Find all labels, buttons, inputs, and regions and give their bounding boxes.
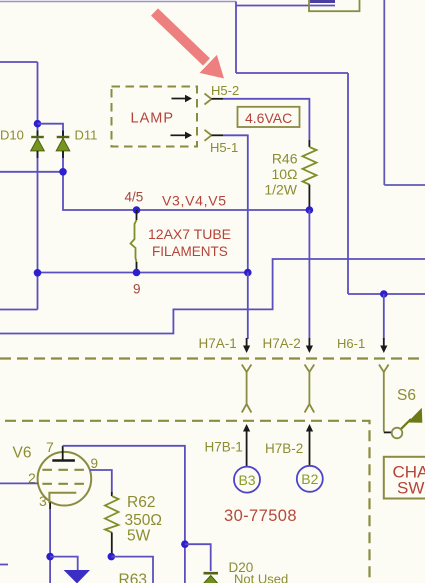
wire filament lower: [38, 272, 248, 274]
wire stub inside connector box: [310, 0, 335, 3]
wire left stub: [0, 564, 8, 566]
arrow H7A-1 down: [243, 338, 250, 353]
svg-text:3: 3: [39, 493, 47, 509]
wire H5-2 upper run: [236, 72, 348, 74]
arrow H7B-2 up: [306, 424, 313, 466]
wire R62 to R63: [111, 557, 153, 583]
diode D11: [56, 131, 70, 159]
dashed boundary line 1: [0, 357, 425, 359]
svg-text:7: 7: [46, 439, 54, 455]
wire H6-1 vertical: [383, 294, 385, 339]
svg-text:12AX7 TUBE: 12AX7 TUBE: [148, 226, 231, 242]
wire H5-2 to R46: [223, 99, 309, 140]
lamp dashed box: [112, 87, 198, 147]
wire to D20: [185, 544, 211, 571]
node junction filament top: [133, 206, 141, 214]
terminal B2: [297, 466, 323, 492]
svg-text:V6: V6: [13, 445, 32, 462]
connector H7A-2 mating: [305, 365, 315, 413]
wire top left horizontal: [0, 61, 38, 63]
resistor filament squiggle: [131, 210, 137, 273]
svg-text:FILAMENTS: FILAMENTS: [152, 244, 228, 259]
wire pin 9: [90, 470, 112, 492]
svg-text:H6-1: H6-1: [337, 336, 365, 351]
arrow lamp pin lower: [171, 132, 193, 139]
node junction R46 bottom: [306, 206, 314, 214]
svg-text:R63: R63: [119, 572, 147, 583]
wire pin 7 plate run: [63, 446, 185, 583]
callout arrow pink: [155, 12, 225, 79]
connector box top right (cut off): [309, 0, 360, 11]
svg-text:H5-1: H5-1: [210, 140, 238, 155]
tube V6: [38, 446, 92, 506]
wire H5-2 black stub: [212, 98, 224, 100]
node junction pin 3: [46, 553, 54, 561]
wire top edge horizontal: [0, 1, 236, 3]
wire to right edge at 294: [348, 293, 425, 295]
wire tall vertical A: [383, 0, 385, 185]
svg-text:4.6VAC: 4.6VAC: [245, 110, 292, 126]
node junction H7A-1: [244, 269, 252, 277]
wire H5-1 black stub: [212, 134, 224, 136]
wire H7A-1 vertical: [247, 273, 249, 340]
wire mid left horizontal: [0, 171, 63, 173]
node junction filament lower mid: [133, 269, 141, 277]
connector chevron H5-2: [205, 94, 212, 105]
node junction D10/D11 top: [34, 120, 42, 128]
svg-text:R46: R46: [272, 151, 298, 167]
wire H7A-2 vertical: [308, 210, 310, 339]
wire vertical into H5-2 net: [235, 2, 237, 74]
wire pin 2: [0, 482, 38, 484]
svg-text:H5-2: H5-2: [211, 83, 239, 98]
svg-text:5W: 5W: [127, 528, 151, 545]
resistor R62: [105, 492, 119, 557]
svg-text:B2: B2: [301, 471, 318, 487]
svg-text:R62: R62: [127, 494, 155, 511]
svg-text:D11: D11: [75, 128, 98, 143]
connector H6-1 mating: [379, 365, 389, 432]
terminal B3: [234, 467, 260, 493]
svg-text:30-77508: 30-77508: [224, 507, 297, 525]
svg-text:H7B-2: H7B-2: [265, 441, 303, 456]
svg-text:B3: B3: [238, 472, 255, 488]
svg-text:9: 9: [133, 282, 141, 297]
wire H5-1 to H7A-1: [223, 135, 248, 272]
svg-text:S6: S6: [397, 387, 416, 404]
connector chevron H5-1: [205, 130, 212, 141]
arrow H7B-1 up: [243, 424, 250, 467]
svg-text:V3,V4,V5: V3,V4,V5: [162, 193, 227, 209]
svg-text:D10: D10: [0, 128, 24, 143]
svg-text:H7B-1: H7B-1: [205, 440, 243, 455]
arrow H6-1 down: [380, 338, 387, 353]
wire to top connector box: [236, 5, 335, 7]
node junction R62 bottom: [108, 553, 116, 561]
svg-text:10Ω: 10Ω: [271, 166, 297, 182]
svg-text:H7A-2: H7A-2: [263, 336, 301, 351]
node junction filament lower left: [34, 269, 42, 277]
svg-text:LAMP: LAMP: [131, 111, 175, 127]
wire lower left exit: [0, 309, 38, 311]
arrow H7A-2 down: [306, 338, 313, 353]
channel switch box: [384, 457, 425, 499]
node junction plate net: [181, 540, 189, 548]
wire right vertical drop: [347, 73, 349, 294]
diode D20: [204, 573, 219, 583]
wire to off-page arrow: [50, 557, 78, 570]
svg-text:4/5: 4/5: [125, 190, 144, 205]
connector H7A-1 mating: [242, 365, 252, 413]
wire pin 3 vertical: [49, 503, 51, 510]
switch S6: [384, 408, 423, 439]
diode D10: [31, 131, 45, 159]
svg-text:350Ω: 350Ω: [125, 512, 162, 529]
off-page arrow down: [64, 570, 90, 583]
svg-text:1/2W: 1/2W: [264, 182, 297, 198]
svg-text:9: 9: [91, 456, 99, 471]
wire D11 branch: [38, 124, 310, 210]
dashed boundary line 2 with corner: [0, 421, 370, 583]
svg-text:SWITCH: SWITCH: [397, 479, 425, 498]
node junction H6-1: [380, 290, 388, 298]
node junction D11 anode: [59, 168, 67, 176]
resistor R46: [303, 140, 317, 210]
arrow lamp pin upper: [172, 95, 193, 102]
wire A exit right: [384, 184, 425, 186]
wire stepped net C: [0, 259, 425, 334]
svg-text:Not Used: Not Used: [234, 572, 288, 583]
voltage box 4.6VAC: [238, 107, 300, 127]
svg-text:H7A-1: H7A-1: [199, 336, 237, 351]
wire D10 vertical: [37, 62, 39, 310]
